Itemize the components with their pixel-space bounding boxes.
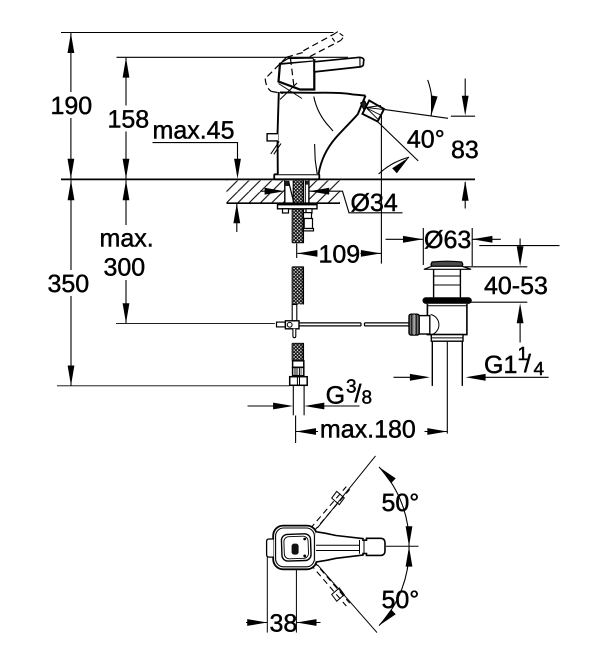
50 deg diagonal extension upper [318,456,376,528]
G3/8 nut [290,377,308,386]
tab lower diagonals [271,142,281,155]
40 deg inclined line [376,120,418,161]
svg-text:38: 38 [270,610,298,638]
arrow 190 bottom [68,159,75,179]
pop-up rod guide bracket [303,213,314,231]
arrow 40-53 top [517,246,524,266]
counter hatch left block [227,181,285,203]
aerator collar (dark) [361,101,369,111]
neck ring lines [434,276,461,285]
40-53 extension line C (O-ring level) [455,301,528,303]
drain lower body [427,304,467,335]
svg-text:G: G [326,382,345,410]
arrow upper arc top [379,467,396,483]
horizontal centre line [386,545,419,547]
arrow 109 left [297,250,317,257]
drain neck [434,269,461,297]
spout inner curve [314,97,333,132]
svg-text:50°: 50° [382,489,420,517]
faucet spout underside swan curve [319,114,359,174]
body right edge inner line [315,144,318,174]
counter underside line [227,202,341,204]
arrow 40-53 bottom [517,303,524,323]
svg-text:83: 83 [451,136,479,164]
83 extension line at spout outlet level [451,115,475,117]
threaded shank through counter [289,181,306,205]
svg-text:/: / [524,350,531,378]
arrow 158 top [123,58,130,78]
mounting hole walls [285,181,309,204]
38 dimension line [246,622,267,624]
svg-text:40°: 40° [407,126,445,154]
knurled knob [409,314,419,335]
dashed lever rotated down [310,561,349,606]
drain O-ring (black) [423,297,472,304]
rod cross fitting [285,321,299,329]
reference line 158 datum [117,56,349,58]
arrow 350 bottom [68,366,75,386]
arrow Ø63 right [472,236,492,243]
arrow upper arc bottom [406,526,413,546]
G3/8 tail pipe [293,386,304,416]
svg-text:max.: max. [100,225,154,253]
aerator body [362,101,384,122]
arrow lower arc top [406,547,413,567]
109 left extension line [296,244,298,259]
arrow max45 upper [234,159,241,179]
109 dimension line [297,252,317,254]
drain tailpipe [432,341,462,386]
slanted washer edge inside hole [289,182,294,201]
svg-text:300: 300 [104,254,146,282]
label 50deg upper [378,487,422,517]
drain centre line [446,331,448,434]
arrow G3/8 left [273,403,293,410]
max.180 dimension line [296,431,318,433]
max.45 lower leader [236,203,238,232]
lever (solid) [314,57,364,72]
lower 50deg arc [379,546,409,625]
screws [303,538,306,541]
Ø34 dimension tails [261,190,267,192]
counter hatch right block [309,181,340,203]
mounting washer plate [278,205,318,209]
svg-text:109: 109 [319,241,361,269]
Ø63 extension lines [422,228,424,265]
washer tabs [283,209,289,213]
handle top bevel [281,58,315,63]
arrow lower arc bottom [379,609,396,625]
svg-text:max.180: max.180 [320,416,416,444]
G1 1/4 dimension line [394,376,412,378]
horizontal pop-up rod [299,323,409,326]
cross fitting screw (left) [277,322,286,327]
svg-text:158: 158 [108,106,150,134]
supply hose lower segment [292,343,304,360]
83 vertical dimension line top [464,79,466,98]
arrow max180 left [296,428,316,435]
lower angle arc [379,157,410,174]
dimension line max300 vertical [125,180,127,323]
arrowheads, side view [68,33,524,435]
drain dome cap (dark) [431,261,463,266]
knob cylinder [419,316,430,334]
supply hose middle segment [292,267,304,305]
handle inner face square [281,534,311,562]
38 extension lines [266,558,268,633]
arrow 190 top [68,33,75,53]
arrow max300 bottom [123,303,130,323]
cross fitting circle [287,322,292,327]
supply hose upper segment [292,210,304,243]
faucet body silhouette (white fill) [277,92,365,174]
dimension line 190 vertical [70,33,72,179]
arrow Ø34 right [309,188,329,195]
arrow 38 right [297,619,317,626]
arrow 40deg lower arc [392,157,409,173]
dimension line 350 vertical [70,180,72,385]
svg-text:350: 350 [48,270,90,298]
handle outer square [273,526,317,570]
40 degree angle reference lines [376,80,448,174]
arrow Ø34 left [265,188,285,195]
svg-text:4: 4 [534,359,545,380]
drain step ring [431,335,463,342]
dashed lever tip mark lower [332,588,345,601]
arrow 83 bottom [462,181,469,201]
aerator spray lines [367,106,384,120]
max300 reference line at rod level [116,322,275,324]
dashed lever tip mark upper [332,491,345,504]
arrow 109 right [361,250,381,257]
dimension line 158 vertical [125,58,127,179]
pop-up knob on body (left tab) [267,134,278,141]
arrow 40deg upper arc [431,95,438,115]
label 50deg lower [378,584,422,614]
label 190 [46,92,96,120]
dashed lever rotated up [310,487,349,532]
spout end face [358,96,366,114]
40-53 extension line A [479,245,559,247]
arrow G1 1/4 left [410,374,430,381]
G3/8 dimension line [248,405,275,407]
body inner arc at rod boss [431,315,439,336]
dashed handle in raised position [265,34,341,93]
svg-text:50°: 50° [382,586,420,614]
lever arm [316,532,385,562]
max.45 underline and leader [153,143,238,160]
dashed lever tip [332,32,344,42]
outlet direction line [385,110,448,119]
arrow 83 top [462,96,469,116]
label max. 300 [95,225,159,282]
arrow 158 bottom [123,159,130,179]
svg-text:G1: G1 [484,351,517,379]
cartridge blob [292,544,299,555]
faucet spout top edge [280,92,366,95]
drain flange rim [424,266,470,269]
hose ferrule [293,361,304,376]
lever tip face [359,57,361,67]
arrow max300 top [123,180,130,200]
svg-text:/: / [355,380,362,408]
handle body (solid) [279,60,315,89]
40-53 extension line B (flange rim) [463,266,528,268]
arrow 350 top [68,180,75,200]
arrow 38 left [247,619,267,626]
arrow Ø63 left [403,236,423,243]
arrow G3/8 right [304,403,324,410]
arrow max180 right [427,428,447,435]
label 158 [103,106,153,134]
label 350 [43,270,97,298]
arrow max45 lower [233,203,240,223]
Ø63 dimension line [386,238,423,240]
arrow G1 1/4 right [466,374,486,381]
rod lower stub [293,329,296,338]
faucet base plinth [274,174,319,179]
svg-text:190: 190 [51,92,93,120]
svg-text:Ø34: Ø34 [351,189,398,217]
109 right extension line (from aerator) [380,115,382,264]
pop-up vertical rod [292,305,297,321]
40-53 vertical dimension line [519,239,521,249]
base gasket (dark) [285,181,290,186]
svg-text:40-53: 40-53 [484,272,548,300]
upper 50deg arc [379,467,409,546]
countertop surface line [61,178,475,180]
left tab [267,539,274,557]
faucet centre line below hose [295,416,297,444]
upper angle arc [428,80,432,116]
svg-text:max.45: max.45 [153,117,235,145]
svg-text:8: 8 [362,388,373,409]
50 deg diagonal extension lower [318,565,378,633]
handle underside cross lines [279,83,303,100]
svg-text:Ø63: Ø63 [424,226,471,254]
350 reference line at hose end level [57,385,290,387]
lever arm inner lines [316,544,359,546]
faucet body left edge [278,92,279,174]
83 vertical dimension line bottom [464,182,466,209]
handle second outline [276,528,315,567]
reference line top (190 datum) [61,32,334,34]
